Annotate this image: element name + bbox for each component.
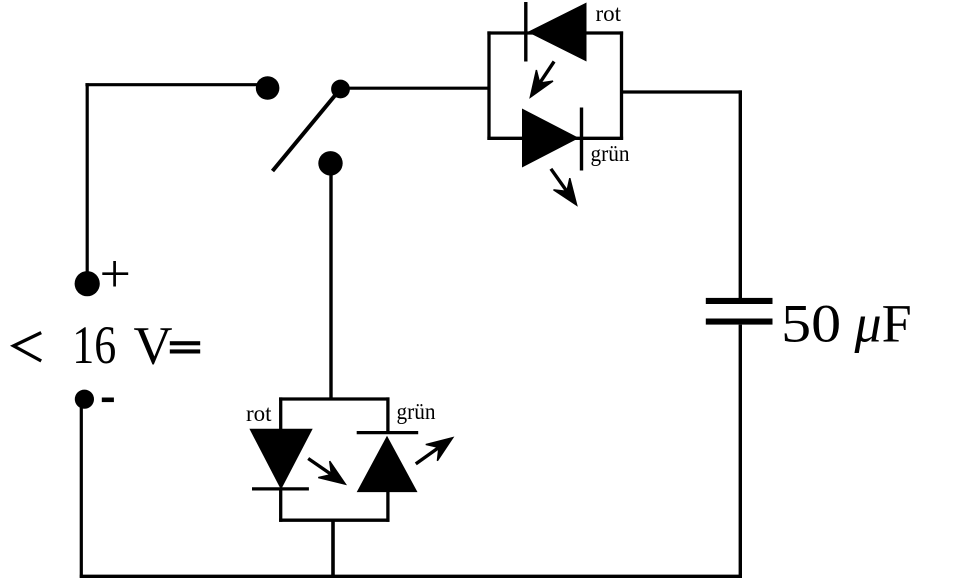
wire left lower vertical — [80, 406, 83, 578]
wire top LED box left edge — [487, 31, 490, 139]
svg-text:16: 16 — [72, 315, 116, 375]
LED D4 gruen cathode bar — [357, 431, 419, 434]
wire switch lower contact to bottom LED box — [329, 165, 332, 401]
svg-text:grün: grün — [591, 141, 630, 166]
light arrow of D1 — [530, 62, 554, 98]
LED D1 rot triangle — [528, 3, 587, 62]
svg-text:rot: rot — [246, 401, 272, 426]
svg-text:grün: grün — [397, 399, 436, 424]
light arrow of D3 — [308, 459, 345, 485]
label < less-than sign — [14, 333, 42, 361]
plus sign — [102, 261, 128, 287]
wire bottom LED box left edge upper — [279, 397, 282, 430]
node switch pivot — [331, 80, 350, 99]
wire left vertical from corner to + terminal — [86, 83, 89, 273]
label = sign — [170, 341, 200, 345]
svg-text:rot: rot — [596, 1, 622, 26]
svg-text:μF: μF — [854, 294, 912, 354]
wire bottom LED box to bottom rail — [331, 519, 335, 578]
LED D2 gruen triangle — [522, 109, 579, 168]
LED D3 rot cathode bar — [252, 487, 309, 490]
node - terminal — [75, 390, 94, 409]
node + terminal — [75, 271, 100, 296]
wire bottom LED box left edge lower — [279, 489, 282, 522]
node switch left contact — [256, 76, 280, 100]
wire top box to capacitor branch — [622, 90, 742, 93]
wire bottom LED box top edge — [279, 397, 389, 400]
wire bottom rail — [80, 575, 742, 578]
wire top LED box right edge — [620, 31, 623, 139]
LED D3 rot triangle — [249, 429, 312, 490]
LED D1 rot cathode bar — [524, 2, 527, 62]
node switch lower contact — [318, 151, 342, 175]
wire bottom LED box right edge lower — [386, 491, 389, 522]
LED D2 gruen cathode bar — [580, 108, 583, 171]
wire top LED box bottom edge — [487, 137, 623, 140]
wire capacitor branch upper vertical — [739, 90, 742, 298]
minus sign — [102, 398, 114, 403]
capacitor C1 top plate — [706, 298, 773, 304]
wire top LED box top edge — [487, 31, 623, 34]
light arrow of D4 — [416, 438, 453, 464]
LED D4 gruen triangle — [357, 436, 418, 492]
wire pivot to top LED box — [341, 87, 490, 90]
light arrow of D2 — [551, 169, 577, 205]
wire top-left horizontal — [85, 83, 262, 86]
switch S1 lever — [273, 90, 340, 171]
svg-text:50: 50 — [781, 294, 841, 354]
capacitor C1 bottom plate — [706, 319, 773, 325]
wire bottom LED box right edge upper — [386, 397, 389, 432]
wire bottom LED box bottom edge — [279, 519, 389, 522]
wire capacitor branch lower vertical — [739, 325, 742, 578]
svg-text:V: V — [134, 316, 173, 376]
